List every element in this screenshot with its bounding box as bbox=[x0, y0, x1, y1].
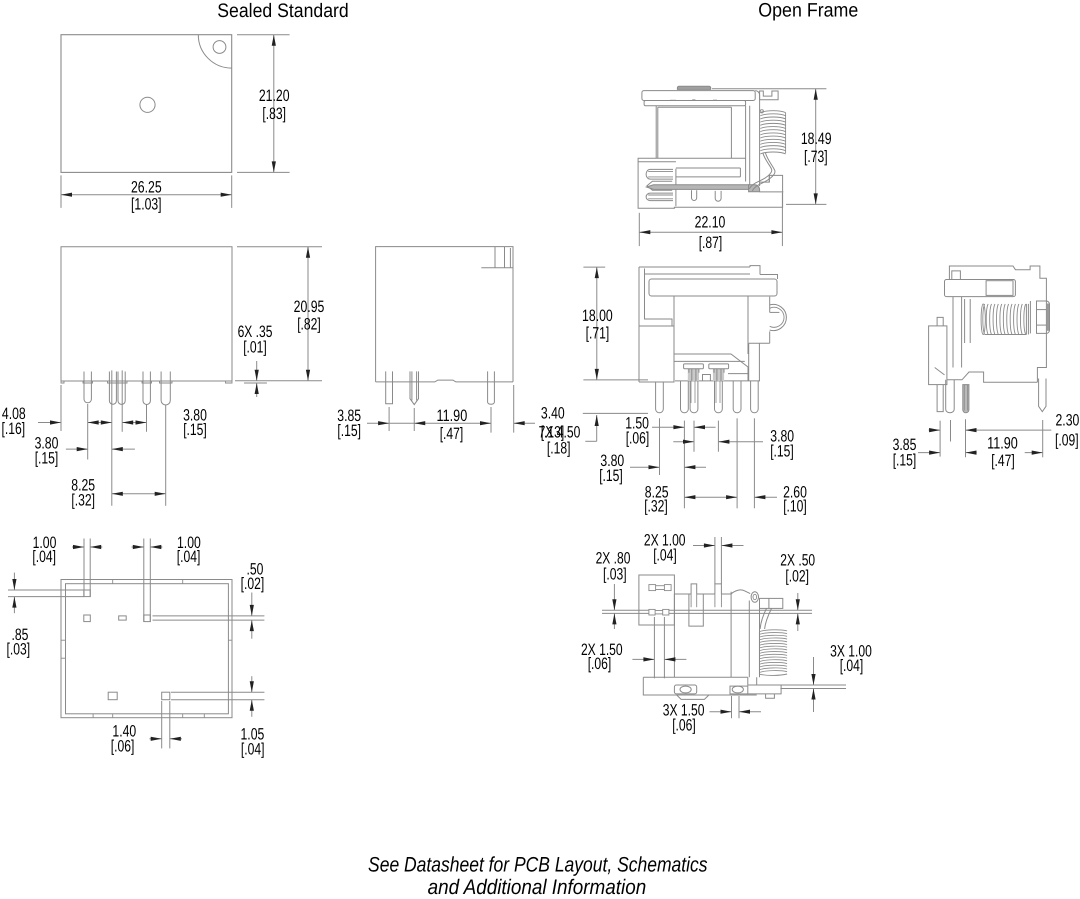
of-side coil wire bbox=[749, 153, 771, 189]
of-front pin 3 stem bbox=[690, 381, 692, 403]
svg-text:[.15]: [.15] bbox=[770, 442, 794, 460]
dim 1.00 left extension lines bbox=[83, 539, 85, 597]
sealed top view body outline bbox=[61, 35, 232, 173]
of-bottom bracket foot bbox=[748, 677, 781, 694]
svg-text:[.04]: [.04] bbox=[840, 657, 864, 675]
sealed side view bottom edge with notch bbox=[376, 380, 513, 382]
extension line pin1 center bbox=[87, 404, 89, 460]
of-front header strip line bbox=[674, 360, 744, 362]
svg-text:[.06]: [.06] bbox=[626, 430, 650, 448]
extension line pin4 center bbox=[146, 404, 148, 432]
of-front right edge segments bbox=[769, 297, 771, 313]
dim 11.90 line bbox=[414, 422, 491, 424]
of-bottom top edge bbox=[674, 593, 731, 595]
of-front pin 6 bbox=[751, 381, 759, 413]
dim 3X 1.00 extension lines bbox=[757, 684, 846, 686]
svg-text:[.02]: [.02] bbox=[785, 567, 809, 585]
dim 18.49 line bbox=[815, 89, 817, 205]
of-front T contact 2 bbox=[709, 364, 729, 369]
dim 3.80 upper line bbox=[88, 422, 112, 424]
extension line side right edge bbox=[513, 385, 515, 433]
dim 18.49 extension top bbox=[712, 88, 826, 90]
of-side contact blade slot 3 bbox=[646, 193, 673, 201]
svg-text:[.15]: [.15] bbox=[893, 452, 917, 470]
sealed top view corner arc bbox=[198, 35, 231, 68]
dim 22.10 extension right bbox=[781, 193, 783, 246]
of-right left tab bbox=[952, 271, 961, 280]
sealed front view body outline bbox=[61, 247, 232, 381]
of-bottom sub block bbox=[689, 594, 703, 626]
svg-text:[.47]: [.47] bbox=[440, 425, 464, 443]
dim 2X 1.00 arrows bbox=[693, 545, 715, 547]
of-front left block bbox=[639, 326, 674, 382]
dim 7X 4.50 leader bbox=[583, 412, 648, 414]
of-front top tab bbox=[750, 266, 760, 275]
of-bottom bracket notch bbox=[766, 694, 775, 698]
sealed front pin 4 bbox=[143, 372, 150, 405]
of-right extension pinL2 bbox=[950, 420, 952, 442]
of-side armature plate bbox=[642, 91, 755, 101]
dim 3.80 left lines bbox=[630, 466, 660, 468]
svg-text:[.03]: [.03] bbox=[6, 641, 30, 659]
dim 3X 1.00 arrows bbox=[813, 657, 815, 685]
svg-text:11.90: 11.90 bbox=[987, 434, 1018, 452]
svg-text:[.02]: [.02] bbox=[241, 575, 265, 593]
dim 26.25 extension line right bbox=[231, 175, 233, 208]
pin hole A bbox=[84, 590, 91, 597]
of-right contact block tab bbox=[937, 317, 943, 326]
of-bottom body left edge bbox=[673, 594, 675, 677]
of-bottom coil left edge bbox=[758, 632, 760, 675]
dim 18.00 extension bottom bbox=[583, 379, 648, 381]
of-bottom wire end ellipse bbox=[751, 592, 758, 603]
of-front bottom edge bbox=[675, 380, 760, 382]
of-right pin L2 bbox=[946, 380, 955, 413]
svg-text:[.73]: [.73] bbox=[804, 148, 828, 166]
pin hole F bbox=[162, 692, 170, 700]
of-front notch between stems bbox=[703, 375, 711, 381]
svg-text:[.15]: [.15] bbox=[35, 450, 59, 468]
dim 21.20 extension line bottom bbox=[237, 171, 290, 173]
of-bottom wire lug tab bbox=[760, 598, 783, 608]
dim .50 arrows bbox=[251, 593, 253, 616]
dim 2X 1.00 extension lines bbox=[714, 537, 716, 584]
of-right extension pinR bbox=[1042, 420, 1044, 457]
svg-text:[.71]: [.71] bbox=[586, 325, 610, 343]
of-right bracket bbox=[1037, 301, 1050, 333]
of-bottom coil bottom edge bbox=[759, 674, 787, 675]
of-front extension pin6 bbox=[753, 418, 755, 508]
of-right coil winding bbox=[983, 304, 1026, 335]
extension line pin cluster left bbox=[111, 370, 113, 505]
of-front extension pin1 bbox=[659, 418, 661, 475]
svg-text:21.20: 21.20 bbox=[259, 87, 290, 105]
of-bottom body right lines bbox=[730, 592, 732, 678]
extension line body left bbox=[60, 385, 62, 431]
dim 21.20 line bbox=[273, 35, 275, 173]
dim 2X .50 arrows bbox=[797, 593, 799, 610]
svg-text:[.06]: [.06] bbox=[111, 737, 135, 755]
of-bottom base tab bbox=[677, 695, 709, 699]
sealed side view top-right notch bbox=[494, 247, 496, 268]
of-side base inner line 1 bbox=[676, 167, 741, 169]
of-front pin 2 bbox=[681, 381, 689, 413]
dim 3.80 right lines bbox=[673, 441, 694, 443]
sealed front pin 2 bbox=[109, 372, 116, 405]
of-front ledge right of tab bbox=[760, 275, 778, 280]
dim 4.08 leader bbox=[38, 422, 61, 424]
extension line pin B bbox=[413, 408, 415, 431]
of-front pin 3 bbox=[690, 381, 698, 413]
of-right contact block bbox=[929, 326, 947, 385]
of-front wire loop inner bbox=[770, 307, 784, 327]
svg-text:3.40: 3.40 bbox=[541, 405, 565, 423]
of-bottom coil winding bbox=[759, 630, 787, 673]
svg-text:Sealed Standard: Sealed Standard bbox=[217, 0, 348, 22]
sealed front pin 3 bbox=[118, 372, 125, 405]
of-front T contact 2 slot shading bbox=[713, 369, 724, 381]
of-right body bottom step bbox=[947, 372, 1038, 382]
of-front extension pin5 bbox=[736, 418, 738, 508]
pin hole D bbox=[144, 615, 151, 622]
of-side right bracket lines bbox=[768, 175, 770, 182]
sealed side pin B bbox=[410, 371, 419, 404]
dim 1.00 right arrows bbox=[132, 546, 144, 548]
of-front left edge bbox=[638, 267, 640, 382]
of-side yoke vertical bar bbox=[745, 106, 747, 182]
of-bottom stud pin 1 bbox=[691, 584, 697, 594]
of-bottom band lines right bbox=[669, 609, 812, 611]
of-side coil winding bbox=[760, 111, 785, 154]
sealed bottom view inner outline bbox=[66, 584, 229, 714]
of-side pin 1 bbox=[692, 190, 697, 200]
dim 18.49 extension bottom bbox=[786, 203, 826, 205]
svg-text:20.95: 20.95 bbox=[294, 298, 325, 316]
of-side coil top loop bbox=[760, 110, 763, 113]
of-side base inner line 2 bbox=[676, 176, 741, 178]
of-side contact blade slot 2 bbox=[647, 181, 672, 190]
of-right bracket flange line bbox=[1029, 301, 1031, 333]
pin hole E bbox=[108, 692, 117, 700]
svg-text:[.04]: [.04] bbox=[653, 547, 677, 565]
svg-text:[.04]: [.04] bbox=[177, 548, 201, 566]
of-side pin 2 bbox=[715, 191, 721, 201]
dim 2.60 line bbox=[754, 496, 777, 498]
svg-text:[.01]: [.01] bbox=[243, 339, 267, 357]
of-front top edge bbox=[639, 266, 750, 268]
svg-text:[.87]: [.87] bbox=[699, 234, 723, 252]
dim 8.25 line bbox=[112, 493, 166, 495]
of-bottom base slot A bbox=[674, 685, 696, 694]
dim 3.80 right line bbox=[122, 422, 146, 424]
of-right extension pinM bbox=[965, 419, 967, 457]
dim 3.85 line bbox=[367, 422, 389, 424]
dim 2X .80 arrows bbox=[613, 584, 615, 610]
of-front second top line bbox=[645, 273, 751, 275]
of-side coil right edge bbox=[785, 113, 787, 154]
dim 1.05 arrows bbox=[251, 676, 253, 692]
dim 22.10 extension left bbox=[638, 213, 640, 246]
svg-text:11.90: 11.90 bbox=[437, 407, 468, 425]
sealed side pin A bbox=[386, 371, 393, 403]
dim 6X .35 arrows bbox=[256, 361, 258, 381]
svg-text:[.10]: [.10] bbox=[783, 498, 807, 516]
of-side bobbin left flange bbox=[655, 106, 657, 159]
of-front right step line bbox=[728, 373, 748, 375]
dim 21.20 extension line top bbox=[237, 34, 290, 36]
svg-text:[.32]: [.32] bbox=[644, 498, 668, 516]
of-side base inner vertical bbox=[739, 168, 741, 177]
of-side base top-left inner line bbox=[638, 161, 676, 163]
of-right inner arm bbox=[964, 299, 966, 343]
dim 26.25 extension line left bbox=[60, 175, 62, 208]
svg-text:[.83]: [.83] bbox=[262, 105, 286, 123]
svg-text:[.06]: [.06] bbox=[672, 716, 696, 734]
of-right armature bar bbox=[945, 280, 1016, 297]
svg-text:[.15]: [.15] bbox=[337, 422, 361, 440]
svg-text:[.09]: [.09] bbox=[1055, 432, 1079, 450]
of-front inner step lines bbox=[645, 269, 673, 327]
extension line pin C bbox=[490, 407, 492, 433]
dim 26.25 line bbox=[61, 194, 232, 196]
dim 3.40 line bbox=[514, 422, 535, 424]
svg-text:26.25: 26.25 bbox=[131, 179, 162, 197]
svg-text:Open Frame: Open Frame bbox=[758, 0, 858, 22]
of-bottom wire curve bbox=[760, 608, 771, 629]
svg-text:[.03]: [.03] bbox=[603, 565, 627, 583]
dim 3.80 lower-left line bbox=[66, 448, 88, 450]
svg-text:and Additional Information: and Additional Information bbox=[428, 876, 647, 899]
of-side bobbin top edge bbox=[658, 106, 732, 108]
sealed front view bottom edge bbox=[61, 380, 232, 382]
dim 22.10 line bbox=[639, 231, 782, 233]
of-front extension pin2 bbox=[683, 421, 685, 509]
dim 20.95 line bbox=[307, 247, 309, 381]
of-right bobbin flange bbox=[1025, 304, 1027, 335]
dim 3.85 row1 bbox=[929, 429, 941, 431]
of-front pin 4 stem bbox=[715, 381, 717, 403]
svg-text:[.82]: [.82] bbox=[297, 315, 321, 333]
pin hole C slot bbox=[119, 616, 127, 620]
svg-text:18.49: 18.49 bbox=[801, 130, 832, 148]
of-side blade right bend gray bbox=[749, 185, 760, 192]
extension line pin cluster right bbox=[121, 370, 123, 431]
of-front blade pin upper bbox=[749, 343, 760, 381]
extension line pin5 center bbox=[165, 405, 167, 506]
dim 8.25 line bbox=[684, 496, 737, 498]
svg-text:[.06]: [.06] bbox=[588, 655, 612, 673]
of-front extension pin3 bbox=[693, 421, 695, 452]
of-side long contact blade bbox=[647, 185, 749, 190]
svg-text:[.15]: [.15] bbox=[183, 421, 207, 439]
svg-text:2.30: 2.30 bbox=[1056, 412, 1080, 430]
dim 2X 1.50 extension lines bbox=[653, 617, 655, 678]
dim 1.40 arrows bbox=[149, 738, 161, 740]
sealed side pin C bbox=[488, 371, 495, 404]
of-front yoke band bbox=[649, 279, 777, 296]
dim 1.00 right extension lines bbox=[143, 539, 145, 622]
sealed front pin 1 bbox=[84, 372, 91, 403]
svg-text:[.16]: [.16] bbox=[2, 420, 26, 438]
svg-text:[.04]: [.04] bbox=[32, 548, 56, 566]
dim .50 extension lines bbox=[153, 615, 265, 617]
of-bottom slot 2 bbox=[649, 609, 655, 615]
svg-text:[1.03]: [1.03] bbox=[131, 196, 162, 214]
dim 6X .35 extension lines bbox=[235, 380, 322, 382]
of-side bobbin right flange bbox=[730, 107, 732, 158]
dim 3X 1.50 arrows bbox=[710, 711, 732, 713]
sealed bottom view outer outline bbox=[61, 580, 232, 718]
dim .85 extension lines bbox=[8, 589, 84, 591]
of-front T contact 1 bbox=[684, 364, 704, 369]
sealed top view corner vent hole bbox=[213, 41, 226, 54]
of-right pin R bbox=[1039, 379, 1046, 412]
svg-text:18.00: 18.00 bbox=[582, 307, 613, 325]
of-right coil bottom edge bbox=[985, 334, 1027, 336]
dim 3X 1.50 extension lines bbox=[731, 696, 733, 718]
svg-text:[.15]: [.15] bbox=[599, 467, 623, 485]
sealed bottom edge ticks bbox=[112, 580, 114, 584]
of-bottom base outline bbox=[643, 677, 756, 695]
dim 2X 1.50 arrows bbox=[632, 658, 654, 660]
of-bottom left block bbox=[639, 575, 675, 625]
of-right armature inner box bbox=[986, 281, 1013, 296]
of-right coil left end bbox=[981, 304, 985, 335]
svg-text:22.10: 22.10 bbox=[695, 214, 726, 232]
of-right pin M bbox=[963, 385, 969, 413]
svg-text:[.47]: [.47] bbox=[991, 452, 1015, 470]
sealed front pin 5 bbox=[161, 372, 170, 406]
of-front pin 4 bbox=[715, 381, 723, 413]
of-front pin 5 bbox=[733, 381, 741, 413]
pin hole B bbox=[84, 615, 91, 622]
sealed side view body outline bbox=[376, 247, 513, 382]
svg-text:See Datasheet for PCB Layout,: See Datasheet for PCB Layout, Schematics bbox=[368, 853, 708, 876]
of-right armature arm bbox=[952, 297, 954, 368]
of-side base outline bbox=[638, 158, 783, 208]
of-right extension pinL1 bbox=[939, 421, 941, 457]
of-front extension pin4 bbox=[717, 421, 719, 452]
of-bottom wire hump bbox=[731, 590, 750, 594]
of-front main body bbox=[674, 296, 748, 381]
of-right yoke outline bbox=[949, 266, 1046, 382]
sealed top view center hole bbox=[140, 97, 155, 112]
of-bottom base slot B bbox=[730, 686, 748, 694]
dim 3.85 row2 and 11.90 line bbox=[918, 452, 940, 454]
svg-text:[.32]: [.32] bbox=[71, 492, 95, 510]
of-bottom band lines left bbox=[602, 609, 649, 611]
of-side plate tick marks bbox=[670, 99, 676, 101]
dim 1.50 lines bbox=[652, 426, 684, 428]
extension line pin A bbox=[388, 407, 390, 431]
of-right contact block diagonal bbox=[935, 368, 945, 375]
of-side armature gray tab bbox=[677, 86, 710, 89]
of-front wire loop outer bbox=[770, 304, 787, 330]
svg-text:[.18]: [.18] bbox=[547, 439, 571, 457]
of-side hinge tab with notch bbox=[760, 91, 779, 100]
dim 20.95 extension line top bbox=[237, 246, 322, 248]
dim .85 arrows bbox=[13, 573, 15, 590]
dim 1.40 extension lines bbox=[161, 701, 163, 748]
of-front pin 1 bbox=[656, 382, 664, 413]
dim 1.00 left arrows bbox=[72, 546, 84, 548]
of-side contact blade slot 1 bbox=[646, 169, 673, 179]
dim 18.00 extension top bbox=[583, 266, 605, 268]
of-side armature plate lower bar bbox=[644, 101, 746, 106]
dim 18.00 line bbox=[596, 267, 598, 380]
of-bottom slot 1 bbox=[649, 585, 656, 591]
of-right pin L1 bbox=[937, 385, 943, 412]
svg-text:[.04]: [.04] bbox=[241, 740, 265, 758]
dim 1.05 extension lines bbox=[171, 691, 264, 693]
of-bottom stud pin 2 bbox=[715, 584, 722, 594]
of-front T contact 1 slot shading bbox=[688, 369, 699, 381]
sealed front view standoff bumps bbox=[61, 381, 64, 383]
